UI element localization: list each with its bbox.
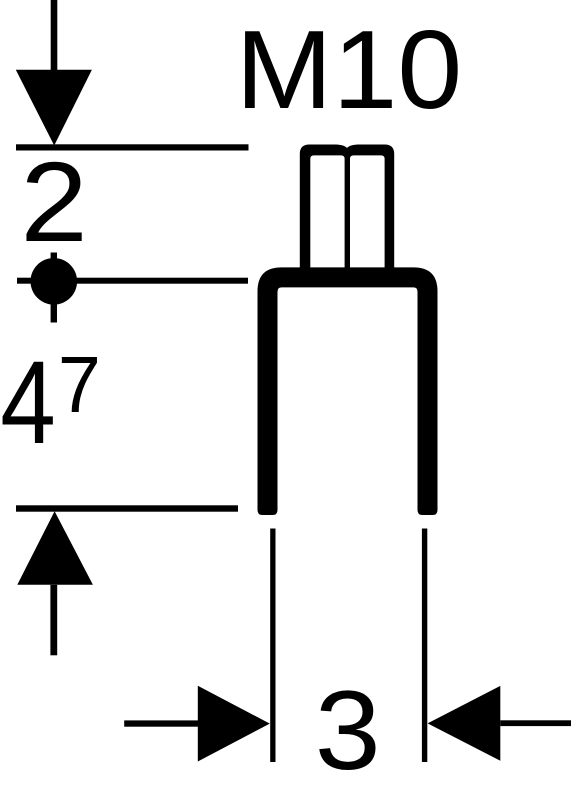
svg-text:2: 2 [20,139,87,266]
dimension line: lower (bottom of legs datum) [16,505,238,511]
dimension line: upper (top of thread datum) [16,144,249,150]
part: U-clip body [258,267,438,515]
svg-text:4: 4 [0,337,56,468]
extension line: left leg [270,529,275,763]
svg-text:M10: M10 [235,8,462,132]
dimension leader: top arrow head (down) [16,70,92,146]
svg-text:7: 7 [58,340,101,429]
svg-text:3: 3 [315,669,381,793]
dimension leader: top arrow stem [51,0,58,72]
wire: short vertical through dot [51,253,57,323]
part: threaded stud (M10) [300,145,394,269]
dimension leader: up arrow stem [50,585,57,656]
node: datum dot [31,258,78,305]
dimension leader: up arrow head [17,511,93,585]
dimension arrow: right (points left) [428,686,501,761]
dimension arrow: left (points right) [124,720,200,726]
dimension line: through dot [17,278,248,284]
extension line: right leg [422,529,427,763]
